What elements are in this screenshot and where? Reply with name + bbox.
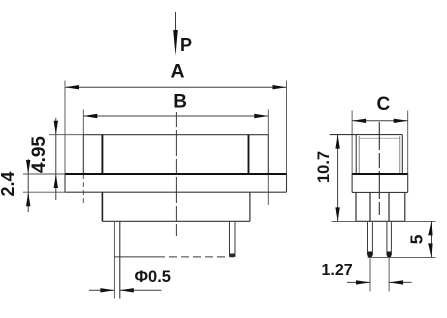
extension line bottom of body (10.7 / 5)	[332, 220, 436, 222]
lower block side view	[356, 192, 405, 221]
extension line pin tips (5)	[368, 256, 436, 258]
extension lines pin centers (1.27)	[370, 257, 389, 291]
extension line A left	[64, 81, 66, 175]
dimension 4.95 line	[54, 118, 58, 200]
dimension 10.7 line	[335, 135, 339, 222]
svg-text:2.4: 2.4	[0, 171, 18, 196]
dimension B line	[83, 114, 268, 118]
svg-text:1.27: 1.27	[322, 262, 353, 279]
label 10.7	[315, 151, 333, 183]
centerline side view	[378, 122, 380, 215]
dimension phi 0.5	[89, 288, 162, 292]
extension line C right	[407, 111, 409, 175]
label 1.27	[322, 262, 353, 279]
svg-text:P: P	[180, 35, 192, 55]
lower block front view	[102, 192, 250, 221]
svg-text:Φ0.5: Φ0.5	[135, 268, 171, 286]
dimension 2.4 line	[23, 159, 65, 212]
dimension A line	[65, 85, 287, 89]
dimension 1.27 line	[347, 280, 412, 284]
extension line A right	[286, 81, 288, 175]
extension line B right	[267, 110, 269, 206]
label A	[171, 61, 185, 83]
svg-text:C: C	[377, 94, 391, 115]
force arrow P	[173, 12, 178, 56]
centerline front view	[175, 112, 177, 236]
svg-text:4.95: 4.95	[29, 136, 50, 173]
dimension 5 line	[428, 221, 432, 257]
housing front view outline	[83, 135, 268, 174]
side view inner recess	[359, 136, 400, 174]
svg-text:5: 5	[406, 234, 426, 244]
label 5	[406, 234, 426, 244]
label 2.4	[0, 171, 18, 196]
label B	[173, 91, 187, 112]
extension line 4.95 top	[49, 134, 83, 136]
svg-text:10.7: 10.7	[315, 151, 333, 183]
pin lines inside block	[370, 192, 389, 221]
svg-text:A: A	[171, 61, 185, 83]
svg-text:B: B	[173, 91, 187, 112]
label 4.95	[29, 136, 50, 173]
pin row line	[114, 256, 229, 258]
label phi 0.5	[135, 268, 171, 286]
slot opening right edge	[248, 135, 250, 174]
slot opening left edge	[101, 135, 103, 174]
side view body	[330, 135, 403, 174]
flange band front view	[65, 174, 287, 192]
pin row2 side view	[387, 221, 392, 257]
flange band side view	[352, 174, 408, 192]
dimension C line	[352, 119, 408, 123]
pin row1 side view	[368, 221, 373, 257]
pin n front view	[230, 221, 236, 257]
pin 1 front view	[114, 221, 119, 298]
label P	[180, 35, 192, 55]
label C	[377, 94, 391, 115]
extension line C left	[351, 111, 353, 175]
extension line B left (dashed below band)	[82, 110, 84, 204]
